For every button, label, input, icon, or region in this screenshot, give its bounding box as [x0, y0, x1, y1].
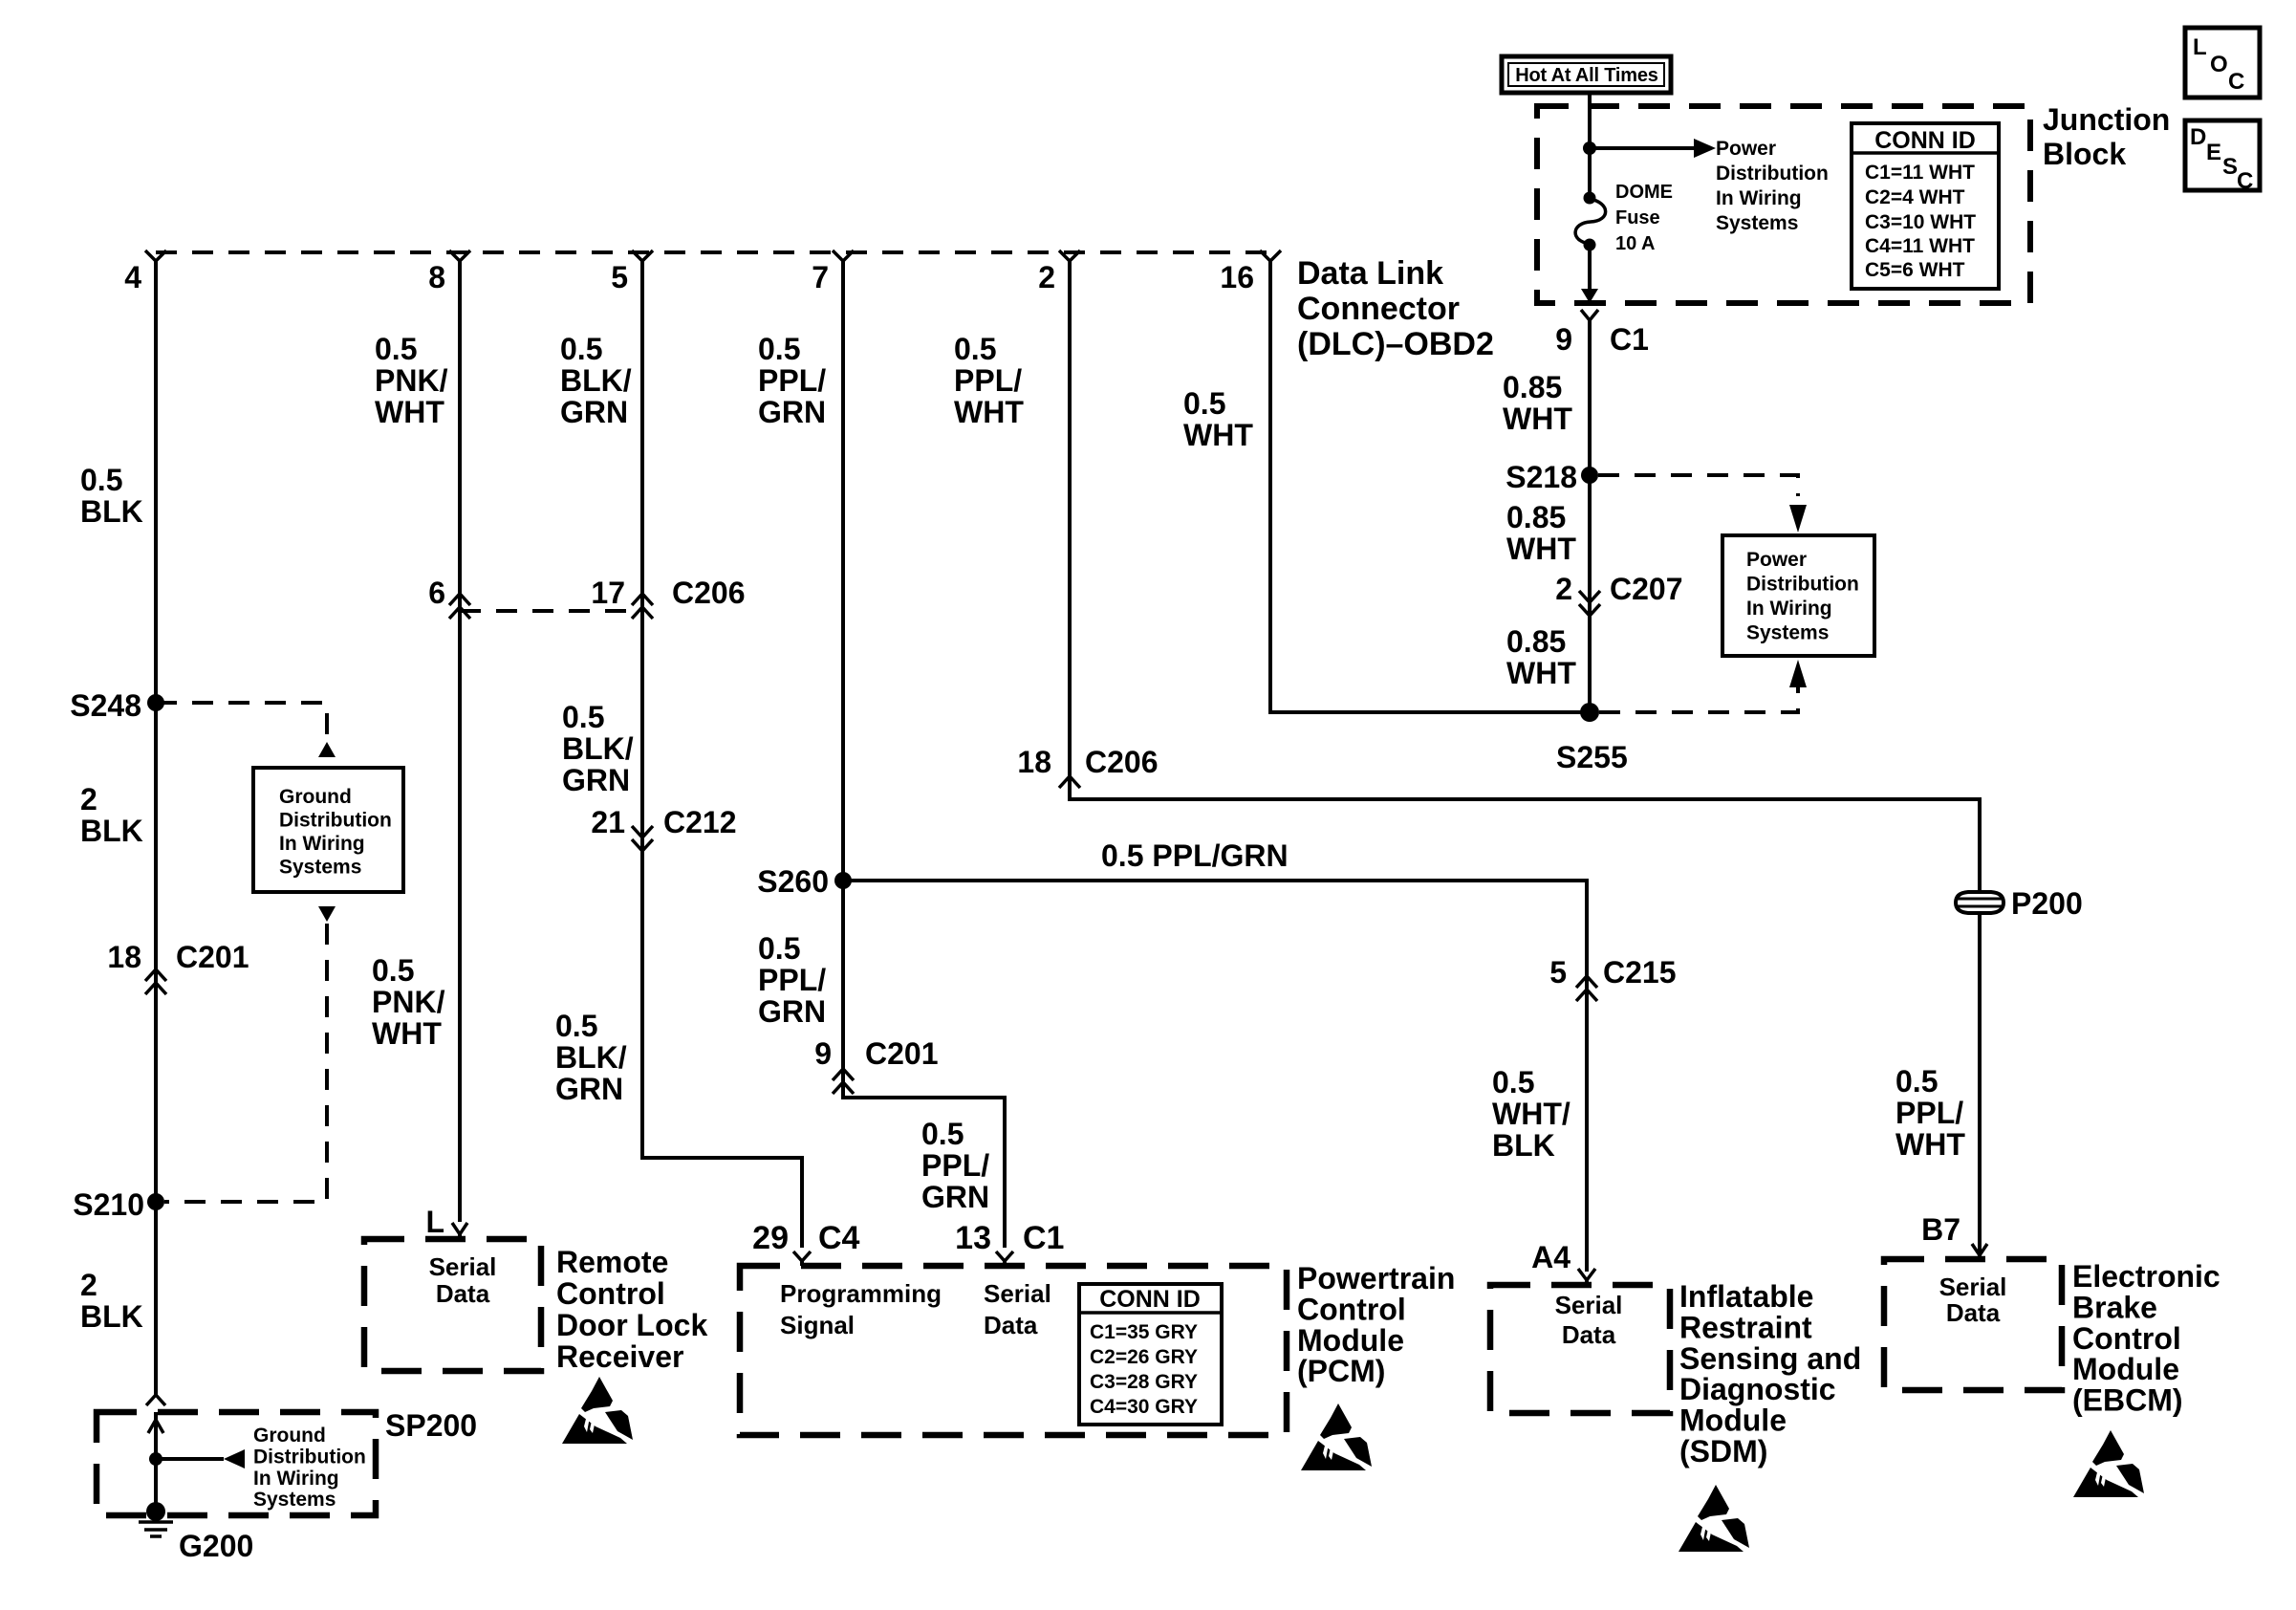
junction dot inside SP200	[149, 1452, 162, 1466]
splice S248	[70, 688, 164, 723]
connector C201 pin 9 (double chevron)	[814, 1036, 938, 1094]
wire: EBCM column below P200	[1978, 914, 1982, 1255]
ESD symbol below SDM	[1679, 1485, 1749, 1552]
fuse DOME 10A	[1575, 182, 1673, 254]
pass-through grommet P200	[1956, 886, 2083, 921]
svg-text:G200: G200	[179, 1529, 253, 1563]
svg-text:C1=11 WHTC2=4 WHTC3=10 WHTC4=1: C1=11 WHTC2=4 WHTC3=10 WHTC4=11 WHTC5=6 …	[1865, 162, 1976, 281]
connector pin 2 of DLC (Y symbol)	[1038, 250, 1080, 294]
wire: pin 2 wire (0.5 PPL/WHT) to EBCM	[1070, 260, 1980, 891]
svg-text:9: 9	[814, 1036, 832, 1071]
connector C201 pin 18 (inline double chevron)	[107, 940, 249, 994]
wire: stub to reference arrow inside SP200	[156, 1457, 224, 1461]
connector C207 pin 2 (double chevron down)	[1555, 572, 1682, 616]
junction block dashed box	[1537, 106, 2030, 303]
svg-text:SP200: SP200	[385, 1408, 477, 1443]
wire: feed from Hot At All Times through fuse	[1588, 91, 1592, 290]
connector chevron above SP200 box	[146, 1395, 165, 1405]
svg-text:O: O	[2210, 52, 2228, 77]
connector pin 5 of DLC (Y symbol)	[611, 250, 653, 294]
junction dot to power distribution arrow	[1583, 141, 1596, 155]
arrow left reference inside SP200	[224, 1449, 245, 1469]
arrow down at junction block exit	[1581, 289, 1598, 303]
ground G200	[139, 1502, 253, 1563]
svg-text:SerialData: SerialData	[1939, 1273, 2007, 1327]
CONN ID table of PCM	[1079, 1284, 1222, 1425]
connector C206 pin 18 (chevron)	[1017, 745, 1158, 788]
connector pin L of remote receiver (Y symbol)	[425, 1205, 467, 1239]
svg-text:P200: P200	[2011, 886, 2083, 921]
wire: dashed reference from ground box to S210	[164, 924, 327, 1202]
Hot At All Times box	[1502, 56, 1671, 93]
svg-text:9: 9	[1555, 322, 1572, 357]
svg-text:S218: S218	[1505, 460, 1577, 494]
svg-text:B7: B7	[1921, 1212, 1960, 1247]
svg-text:C: C	[2228, 69, 2244, 95]
connector pin 8 of DLC (Y symbol)	[428, 250, 470, 294]
svg-text:2: 2	[1555, 572, 1572, 606]
connector C212 pin 21 (double chevron down)	[591, 805, 736, 851]
svg-text:SerialData: SerialData	[1555, 1291, 1623, 1349]
svg-text:C4: C4	[818, 1220, 860, 1256]
connector C1 pin 9 (Y below junction block)	[1555, 310, 1649, 357]
splice S255	[1556, 703, 1628, 774]
wire: S260 branch to SDM (0.5 PPL/GRN)	[843, 881, 1587, 1272]
wire: dashed reference from S248 to ground distribution	[156, 703, 327, 736]
svg-text:L: L	[425, 1205, 444, 1239]
svg-text:C1: C1	[1023, 1220, 1064, 1256]
svg-text:C206: C206	[672, 576, 746, 610]
svg-text:D: D	[2190, 124, 2206, 150]
svg-text:4: 4	[124, 260, 141, 294]
wire: junction block output 0.85 WHT	[1588, 319, 1592, 712]
module box: SDM (dashed)	[1490, 1285, 1670, 1413]
svg-text:C201: C201	[865, 1036, 939, 1071]
svg-text:29: 29	[752, 1220, 789, 1256]
wire: pin 5 wire (0.5 BLK/GRN) to PCM pin 29	[642, 260, 802, 1248]
arrow up into ground distribution box	[318, 742, 336, 757]
arrow down out of ground distribution box	[318, 906, 336, 922]
connector pin A4 of SDM (Y symbol)	[1531, 1240, 1595, 1286]
wire: inside SP200 to G200	[154, 1412, 158, 1512]
svg-text:5: 5	[1549, 955, 1567, 990]
ESD symbol below EBCM	[2073, 1430, 2144, 1497]
svg-text:C215: C215	[1603, 955, 1677, 990]
LOC box	[2185, 28, 2260, 98]
connector C215 pin 5 (double chevron)	[1549, 955, 1676, 1001]
wire: branch to power distribution reference	[1590, 146, 1696, 150]
wire: dashed reference S218 to power distribution box	[1598, 475, 1798, 496]
module box: EBCM (dashed)	[1884, 1259, 2062, 1390]
svg-text:21: 21	[591, 805, 625, 839]
svg-text:17: 17	[591, 576, 625, 610]
connector pin 16 of DLC (Y symbol)	[1220, 250, 1281, 294]
connector C206 pin 17 (double chevron)	[591, 576, 745, 619]
svg-text:SerialData: SerialData	[429, 1252, 497, 1308]
splice S210	[73, 1187, 164, 1222]
module box: PCM (dashed)	[740, 1266, 1287, 1435]
svg-text:16: 16	[1220, 260, 1254, 294]
svg-text:18: 18	[1017, 745, 1051, 779]
connector pin 13 C1 of PCM (Y symbol)	[955, 1220, 1064, 1266]
node: DLC top dashed bus	[156, 250, 1270, 254]
module box: Remote Control Door Lock Receiver (dashed)	[364, 1239, 541, 1371]
ESD symbol below PCM	[1301, 1403, 1372, 1470]
svg-text:CONN ID: CONN ID	[1874, 127, 1976, 154]
connector pin 4 of DLC (Y symbol)	[124, 250, 166, 294]
connector pin B7 of EBCM (Y symbol)	[1921, 1212, 1987, 1259]
ESD symbol below remote receiver	[562, 1377, 633, 1444]
connector pin 7 of DLC (Y symbol)	[812, 250, 854, 294]
splice box SP200 (dashed)	[97, 1408, 477, 1515]
svg-text:13: 13	[955, 1220, 991, 1256]
svg-text:6: 6	[428, 576, 445, 610]
ground distribution reference box	[253, 768, 403, 892]
splice S260	[757, 864, 852, 899]
splice S218	[1505, 460, 1598, 494]
wire: pin 16 to S255	[1270, 260, 1590, 712]
CONN ID table of junction block	[1852, 123, 1999, 289]
svg-text:C: C	[2237, 168, 2253, 194]
svg-text:C201: C201	[176, 940, 249, 974]
svg-text:A4: A4	[1531, 1240, 1570, 1274]
arrow down into power distribution box	[1789, 505, 1807, 533]
svg-text:8: 8	[428, 260, 445, 294]
DESC box	[2185, 120, 2260, 194]
wire: dashed jumper from 6 to 17	[460, 609, 642, 613]
svg-text:S260: S260	[757, 864, 829, 899]
svg-text:18: 18	[107, 940, 141, 974]
svg-text:C207: C207	[1610, 572, 1683, 606]
svg-text:0.5 PPL/GRN: 0.5 PPL/GRN	[1101, 838, 1289, 873]
wire: pin 8 serial data wire (0.5 PNK/WHT)	[458, 260, 462, 1222]
svg-text:S: S	[2222, 154, 2238, 180]
svg-text:Hot At All Times: Hot At All Times	[1515, 65, 1657, 86]
arrow right to power distribution text	[1694, 139, 1716, 158]
svg-text:5: 5	[611, 260, 628, 294]
wire: pin 7 serial data wire (0.5 PPL/GRN) to PCM pin 13	[843, 260, 1005, 1248]
svg-text:S255: S255	[1556, 740, 1628, 774]
svg-text:C212: C212	[663, 805, 737, 839]
svg-text:S248: S248	[70, 688, 141, 723]
wire: dashed reference S255 to power distribution box	[1599, 685, 1798, 712]
svg-text:S210: S210	[73, 1187, 144, 1222]
arrow up into power distribution box	[1789, 660, 1807, 687]
wire: pin 4 ground wire (0.5 BLK / 2 BLK)	[154, 260, 158, 1395]
svg-text:7: 7	[812, 260, 829, 294]
svg-text:CONN ID: CONN ID	[1099, 1286, 1201, 1313]
svg-text:C1: C1	[1610, 322, 1649, 357]
arrow head up inside SP200	[148, 1420, 163, 1433]
svg-text:L: L	[2193, 34, 2207, 60]
svg-text:E: E	[2206, 140, 2221, 165]
svg-text:2: 2	[1038, 260, 1055, 294]
connector pin 29 C4 of PCM (Y symbol)	[752, 1220, 859, 1266]
power distribution reference box	[1722, 535, 1874, 656]
svg-text:C206: C206	[1085, 745, 1159, 779]
connector C206 pin 6 (double chevron)	[428, 576, 470, 619]
